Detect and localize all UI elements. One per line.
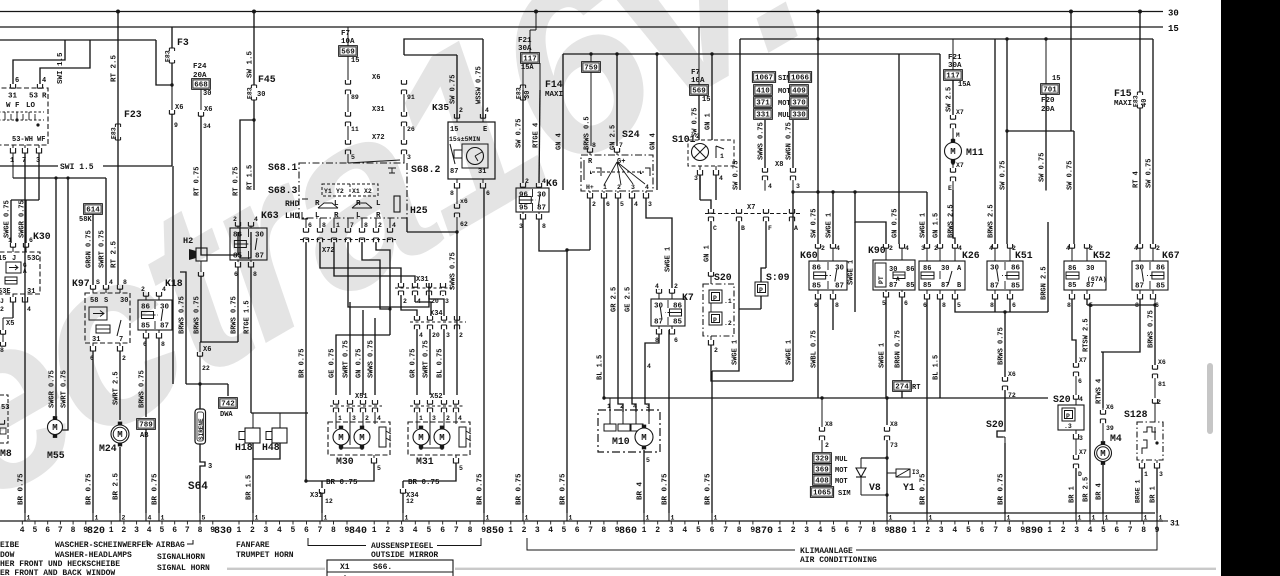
- svg-text:2: 2: [385, 526, 390, 535]
- svg-text:2: 2: [1156, 245, 1160, 252]
- wire X8-4 stub: [764, 189, 766, 192]
- svg-text:5: 5: [459, 465, 463, 472]
- svg-text:5: 5: [427, 526, 432, 535]
- svg-text:M: M: [359, 433, 364, 443]
- svg-text:4: 4: [413, 526, 418, 535]
- svg-text:P: P: [713, 295, 717, 302]
- svg-text:X1: X1: [340, 563, 350, 572]
- svg-text:5: 5: [562, 526, 567, 535]
- pins below S128: [1141, 460, 1143, 463]
- connector code 742 DWA: [227, 384, 229, 396]
- horn H48: [279, 413, 281, 428]
- svg-text:L: L: [356, 212, 361, 220]
- svg-text:6: 6: [29, 237, 33, 244]
- wire S9 pin7 down to ground rail: [24, 153, 26, 513]
- svg-text:87: 87: [990, 283, 999, 291]
- svg-text:SWGE 1: SWGE 1: [920, 213, 928, 238]
- pins below S24: [589, 191, 591, 193]
- svg-text:MOT: MOT: [778, 100, 791, 108]
- connector X6 pin x1005: [1002, 377, 1007, 381]
- svg-text:1: 1: [405, 515, 409, 522]
- svg-text:2: 2: [365, 415, 369, 422]
- svg-text:P: P: [713, 317, 717, 324]
- svg-text:D: D: [1078, 471, 1082, 478]
- svg-text:40: 40: [1141, 99, 1149, 107]
- svg-text:1: 1: [720, 153, 724, 160]
- svg-text:BRWS 0.75: BRWS 0.75: [1148, 310, 1156, 348]
- svg-text:BL 0.75: BL 0.75: [437, 349, 445, 378]
- svg-text:4: 4: [836, 245, 840, 252]
- svg-text:12: 12: [406, 498, 414, 505]
- wire K52-8 down to pressure switch: [1072, 299, 1076, 363]
- svg-text:MUL: MUL: [778, 112, 791, 120]
- svg-text:TRUMPET HORN: TRUMPET HORN: [236, 551, 294, 560]
- svg-text:WASHER-HEADLAMPS: WASHER-HEADLAMPS: [55, 551, 132, 560]
- wire SWGE 1 k90 loop tail: [854, 222, 856, 312]
- ECU connector codes 371 MOT 370: [754, 97, 773, 108]
- wire X7-B down: [712, 221, 739, 371]
- svg-text:OUTSIDE MIRROR: OUTSIDE MIRROR: [371, 551, 438, 560]
- wire GN 2.5 to S24: [616, 54, 618, 146]
- wire SWRT 0.75 to M55: [62, 178, 68, 430]
- svg-text:SWGR 0.75: SWGR 0.75: [49, 370, 57, 408]
- svg-text:E83: E83: [1133, 95, 1140, 107]
- svg-text:117: 117: [946, 73, 960, 81]
- connector X7 pin E below M11: [952, 163, 954, 168]
- svg-text:840: 840: [349, 526, 367, 537]
- svg-text:4: 4: [645, 184, 649, 191]
- svg-text:H2: H2: [183, 236, 193, 246]
- svg-text:6: 6: [1012, 302, 1016, 309]
- svg-text:SW 1.5: SW 1.5: [247, 50, 255, 78]
- svg-text:S20: S20: [986, 419, 1004, 430]
- svg-text:30: 30: [537, 192, 547, 200]
- svg-text:85: 85: [1068, 282, 1076, 290]
- svg-text:95: 95: [519, 205, 529, 213]
- svg-text:87: 87: [835, 283, 844, 291]
- wire SW 0.75 to S101 lamp: [698, 95, 700, 140]
- wire S24-2 down BR: [589, 198, 591, 250]
- svg-text:4: 4: [277, 526, 282, 535]
- svg-text:S128: S128: [1124, 409, 1148, 420]
- svg-text:6: 6: [844, 526, 849, 535]
- svg-text:BRGN 0.75: BRGN 0.75: [895, 330, 903, 368]
- svg-text:M: M: [1100, 449, 1105, 459]
- svg-text:K51: K51: [1015, 250, 1033, 261]
- svg-text:BR 0.75: BR 0.75: [516, 473, 524, 505]
- connector X7 pin M: [950, 115, 955, 119]
- svg-text:7: 7: [454, 526, 459, 535]
- connector code 274 RT: [893, 381, 912, 392]
- connector code 759: [582, 62, 601, 73]
- svg-text:H+: H+: [586, 184, 594, 191]
- svg-text:BRGE 1: BRGE 1: [1135, 479, 1142, 503]
- svg-text:890: 890: [1025, 526, 1043, 537]
- svg-text:F7: F7: [341, 30, 350, 38]
- mirror actuator M31: [408, 422, 470, 455]
- svg-text:9: 9: [345, 526, 350, 535]
- svg-text:3: 3: [1079, 435, 1083, 442]
- wire F7 to connector chain: [347, 56, 349, 80]
- svg-text:4: 4: [905, 245, 909, 252]
- svg-text:BRWS 0.75: BRWS 0.75: [231, 296, 239, 334]
- wire BR 0.75 S20 to ruler: [1004, 443, 1006, 513]
- svg-text:1: 1: [486, 515, 490, 522]
- wire SWRT 0.75 to K97 pin 4: [105, 178, 107, 285]
- wire GN 1.5 to K26 pin2: [939, 54, 941, 244]
- svg-text:F15: F15: [1114, 88, 1132, 99]
- svg-text:BR 2.5: BR 2.5: [113, 472, 121, 500]
- svg-text:96: 96: [519, 192, 529, 200]
- svg-text:BR 0.75: BR 0.75: [998, 473, 1006, 505]
- svg-text:X1: X1: [352, 188, 360, 195]
- svg-text:2: 2: [0, 306, 4, 313]
- svg-text:20A: 20A: [1041, 106, 1055, 114]
- svg-text:30A: 30A: [948, 62, 962, 70]
- svg-text:F: F: [768, 225, 772, 232]
- wire BR 1 S128 to ruler: [1156, 468, 1158, 513]
- svg-text:1: 1: [95, 515, 99, 522]
- svg-text:BR 4: BR 4: [1096, 483, 1104, 500]
- svg-text:6: 6: [1078, 378, 1082, 385]
- svg-text:S66.: S66.: [373, 563, 392, 572]
- svg-text:PT: PT: [878, 276, 885, 284]
- wire K60-8 tail: [832, 299, 834, 330]
- terminal 31 right end: [1156, 513, 1158, 521]
- svg-text:E83: E83: [247, 87, 254, 99]
- wire SWGR 0.75 to M55: [55, 178, 57, 416]
- svg-text:J: J: [0, 298, 4, 305]
- svg-text:F21: F21: [948, 54, 962, 62]
- svg-text:7: 7: [318, 526, 323, 535]
- svg-text:E: E: [948, 185, 952, 192]
- svg-text:X8: X8: [890, 421, 898, 428]
- wire BRGE 1 to klima bus: [1141, 468, 1143, 513]
- svg-text:569: 569: [692, 88, 706, 96]
- svg-text:S68.2: S68.2: [411, 164, 441, 175]
- wire x1103 RTWS to X6 39: [1100, 410, 1105, 414]
- svg-text:53-WH: 53-WH: [12, 136, 33, 144]
- wire bus54 down x899 segment: [898, 53, 900, 56]
- svg-text:6: 6: [45, 526, 50, 535]
- svg-text:BR 1: BR 1: [1150, 486, 1158, 503]
- svg-text:22: 22: [202, 365, 210, 372]
- resistor H25: [394, 196, 400, 212]
- svg-text:M4: M4: [1110, 433, 1122, 444]
- svg-text:5: 5: [291, 526, 296, 535]
- svg-text:87: 87: [255, 253, 264, 261]
- svg-text:3: 3: [446, 332, 450, 339]
- svg-text:RTGE 1.5: RTGE 1.5: [244, 300, 252, 334]
- svg-text:1: 1: [161, 515, 165, 522]
- svg-text:870: 870: [755, 526, 773, 537]
- svg-text:WSSW 0.75: WSSW 0.75: [476, 66, 484, 104]
- svg-text:MOT: MOT: [835, 467, 848, 475]
- wire BR 0.75 K35 pin6 to ground rail: [483, 188, 485, 513]
- svg-text:15: 15: [450, 126, 458, 134]
- wire BRWS 2.5 to K51 pin4: [994, 39, 996, 244]
- svg-text:850: 850: [486, 526, 504, 537]
- svg-text:4: 4: [633, 403, 637, 410]
- svg-text:R: R: [376, 212, 381, 220]
- svg-text:274: 274: [895, 384, 909, 392]
- svg-text:9: 9: [481, 526, 486, 535]
- svg-text:4: 4: [682, 526, 687, 535]
- svg-text:SW 0.75: SW 0.75: [450, 75, 458, 104]
- svg-text:K52: K52: [1093, 250, 1111, 261]
- svg-text:3: 3: [631, 184, 635, 191]
- svg-text:62: 62: [460, 221, 468, 228]
- svg-text:BR 0.75: BR 0.75: [326, 479, 358, 487]
- wire F24 to K63 pin 2: [201, 232, 238, 255]
- svg-text:85: 85: [906, 282, 914, 290]
- svg-text:85: 85: [923, 282, 931, 290]
- svg-text:RT 2.5: RT 2.5: [111, 240, 119, 268]
- svg-text:30: 30: [941, 265, 949, 273]
- svg-text:4: 4: [542, 178, 546, 185]
- svg-text:7: 7: [619, 142, 623, 149]
- svg-text:759: 759: [584, 65, 598, 73]
- ECU connector codes 331 MUL 330: [754, 109, 773, 120]
- svg-text:L: L: [315, 212, 320, 220]
- svg-text:1: 1: [237, 526, 242, 535]
- svg-text:86: 86: [141, 304, 151, 312]
- svg-text:7: 7: [185, 526, 190, 535]
- svg-text:BR 1: BR 1: [1069, 486, 1077, 503]
- wire BR 4 M10 to ground rail: [643, 450, 645, 513]
- svg-text:SWGE 1: SWGE 1: [665, 247, 673, 272]
- svg-text:A: A: [896, 276, 900, 283]
- svg-text:6: 6: [15, 77, 19, 85]
- wire SW 0.75 x1074 to K52: [1073, 131, 1075, 244]
- svg-text:4: 4: [27, 306, 31, 313]
- svg-text:830: 830: [214, 526, 232, 537]
- svg-text:M55: M55: [47, 450, 65, 461]
- svg-text:6: 6: [486, 190, 490, 197]
- svg-text:X6: X6: [204, 106, 212, 114]
- svg-text:6: 6: [440, 526, 445, 535]
- svg-text:W F: W F: [6, 102, 20, 110]
- svg-text:2: 2: [122, 355, 126, 362]
- svg-text:BR 0.75: BR 0.75: [705, 473, 713, 505]
- svg-text:9: 9: [83, 526, 88, 535]
- svg-text:15s±5MIN: 15s±5MIN: [449, 136, 480, 143]
- node junctions on bus 30: [116, 10, 120, 14]
- svg-text:S64: S64: [188, 481, 208, 493]
- svg-text:M: M: [117, 430, 122, 440]
- wire x6 62 junction from H25 to K35 pin8 wire: [406, 218, 408, 232]
- svg-text:RT 2.5: RT 2.5: [111, 54, 119, 82]
- svg-text:RTWS 4: RTWS 4: [1096, 379, 1104, 404]
- wire RTGE 1.5 K63 pin8 to horns: [250, 267, 252, 413]
- svg-text:4: 4: [254, 216, 258, 223]
- svg-text:BRWS 0.75: BRWS 0.75: [179, 296, 187, 334]
- svg-text:15: 15: [351, 57, 359, 65]
- svg-text:30: 30: [160, 304, 170, 312]
- svg-text:7: 7: [350, 222, 354, 229]
- svg-text:WF: WF: [37, 136, 45, 144]
- svg-text:4: 4: [42, 77, 46, 85]
- svg-text:X6: X6: [175, 104, 183, 112]
- wire relay feed bus y192: [793, 191, 927, 193]
- svg-text:4: 4: [989, 245, 993, 252]
- svg-text:RTSW 2.5: RTSW 2.5: [1083, 318, 1091, 352]
- svg-text:1: 1: [1092, 515, 1096, 522]
- svg-text:RHD: RHD: [285, 200, 300, 209]
- svg-text:SWGE 1: SWGE 1: [879, 343, 887, 368]
- svg-text:1: 1: [1144, 515, 1148, 522]
- svg-text:X2: X2: [364, 188, 372, 195]
- wire SW 0.75 from y39 to K67: [1152, 39, 1154, 244]
- wire to S9 pin 4: [40, 40, 90, 84]
- svg-text:SWRT 0.75: SWRT 0.75: [343, 340, 351, 378]
- wire RT 4 from F15 to K67: [1139, 108, 1141, 244]
- svg-text:EIBE: EIBE: [0, 541, 19, 550]
- wire K90-5 down SWGE: [885, 297, 887, 398]
- svg-text:2: 2: [122, 515, 126, 522]
- svg-text:1: 1: [372, 526, 377, 535]
- svg-text:5: 5: [377, 465, 381, 472]
- svg-text:1: 1: [10, 157, 14, 165]
- ruler tick marks: [22, 521, 1157, 525]
- svg-text:87: 87: [160, 323, 169, 331]
- svg-text:P: P: [759, 287, 763, 294]
- svg-text:S:09: S:09: [766, 272, 790, 283]
- svg-text:M: M: [338, 433, 343, 443]
- wire SW 0.75 from F21 to K6: [522, 90, 524, 183]
- svg-text:GE 2.5: GE 2.5: [625, 287, 633, 312]
- svg-text:1: 1: [714, 515, 718, 522]
- wire S24-4 GE 2.5: [632, 198, 636, 412]
- wire SWGR 0.75 to K30 pin6: [25, 200, 27, 243]
- svg-text:1: 1: [109, 526, 114, 535]
- wire bus y178 to M55/K97: [13, 177, 106, 179]
- svg-text:86: 86: [1156, 265, 1166, 273]
- svg-text:2: 2: [121, 526, 126, 535]
- wire SWGN 0.75 from ECU: [792, 120, 794, 168]
- svg-text:X52: X52: [430, 393, 443, 401]
- svg-text:BRWS 0.75: BRWS 0.75: [194, 296, 202, 334]
- svg-text:6: 6: [575, 526, 580, 535]
- caption airbag: [147, 540, 193, 544]
- svg-text:AIRBAG: AIRBAG: [156, 541, 185, 550]
- svg-text:72: 72: [1008, 392, 1016, 399]
- wire BR 0.75 K97 to ground rail: [92, 351, 94, 513]
- svg-text:F23: F23: [124, 109, 142, 120]
- wires X31 down to mirror M30: [335, 352, 337, 395]
- svg-text:RT 0.75: RT 0.75: [194, 167, 202, 196]
- svg-text:X34: X34: [430, 310, 443, 318]
- svg-text:1: 1: [1078, 515, 1082, 522]
- wire SW 2.5 to M11: [952, 80, 954, 115]
- wire K52 K67 ground bus y305: [1086, 299, 1088, 305]
- svg-text:4: 4: [148, 515, 152, 522]
- svg-text:E83: E83: [165, 50, 172, 62]
- wire ground rail x712: [711, 371, 713, 513]
- svg-text:M: M: [641, 433, 646, 443]
- wire SWGN 0.75 branch down to S20 bus: [792, 192, 794, 381]
- svg-text:8: 8: [592, 142, 596, 149]
- svg-text:1: 1: [1047, 526, 1052, 535]
- svg-text:569: 569: [341, 49, 355, 57]
- svg-text:K97: K97: [72, 278, 90, 289]
- wire bus y54: [563, 53, 940, 55]
- svg-text:30: 30: [990, 265, 1000, 273]
- wire BR 0.75 K6 pin3 to ground rail: [522, 219, 524, 513]
- wire RT 1.5 from F45 down: [253, 120, 255, 190]
- svg-text:87: 87: [941, 282, 949, 290]
- wire heater feed bus y398: [604, 397, 1048, 399]
- svg-text:91: 91: [407, 94, 415, 101]
- svg-text:1: 1: [27, 515, 31, 522]
- svg-text:1: 1: [338, 415, 342, 422]
- svg-text:4: 4: [1134, 245, 1138, 252]
- svg-text:H18: H18: [235, 442, 253, 453]
- svg-text:X7: X7: [956, 162, 964, 169]
- svg-text:3: 3: [1074, 526, 1079, 535]
- svg-text:BRWS 0.5: BRWS 0.5: [584, 116, 592, 150]
- svg-text:1: 1: [1144, 471, 1148, 478]
- wire mirror ground to X31 pin 12: [304, 479, 307, 482]
- svg-text:K6: K6: [546, 178, 558, 189]
- wire BRWS 0.75 to S20 switch: [1004, 312, 1006, 377]
- svg-text:4: 4: [548, 526, 553, 535]
- svg-text:GR 0.75: GR 0.75: [410, 349, 418, 378]
- svg-text:3: 3: [445, 298, 449, 305]
- svg-text:8: 8: [123, 279, 127, 286]
- svg-text:369: 369: [815, 467, 829, 475]
- wire BR 2.5 M24 to ground rail: [119, 447, 121, 513]
- svg-text:M: M: [950, 147, 955, 157]
- svg-text:MAXI: MAXI: [1114, 100, 1132, 108]
- svg-text:K60: K60: [800, 250, 818, 261]
- svg-text:K7: K7: [682, 292, 694, 303]
- svg-text:2: 2: [459, 332, 463, 339]
- svg-text:2: 2: [141, 286, 145, 293]
- svg-text:614: 614: [86, 207, 100, 215]
- svg-text:I3: I3: [912, 469, 920, 476]
- legend table X1 S66: [327, 560, 453, 576]
- svg-text:S: S: [104, 297, 108, 305]
- svg-text:4: 4: [958, 245, 962, 252]
- motor M24 wiper motor: [111, 425, 129, 443]
- svg-text:.3: .3: [1064, 423, 1072, 430]
- wire from bus30 x1071 down to y131: [1070, 12, 1072, 132]
- svg-text:S101: S101: [672, 134, 696, 145]
- svg-text:8: 8: [1141, 526, 1146, 535]
- svg-text:K67: K67: [1162, 250, 1180, 261]
- svg-text:x6: x6: [460, 198, 468, 205]
- svg-text:SW 0.75: SW 0.75: [811, 209, 819, 238]
- svg-text:1: 1: [603, 184, 607, 191]
- svg-text:30: 30: [1168, 9, 1179, 19]
- svg-text:3: 3: [694, 175, 698, 182]
- svg-text:2: 2: [522, 526, 527, 535]
- svg-text:2: 2: [934, 245, 938, 252]
- svg-text:AUSSENSPIEGEL: AUSSENSPIEGEL: [371, 542, 434, 551]
- svg-text:1: 1: [646, 515, 650, 522]
- svg-text:3: 3: [648, 201, 652, 208]
- svg-text:5: 5: [160, 526, 165, 535]
- svg-text:A: A: [23, 268, 27, 275]
- svg-text:8: 8: [468, 526, 473, 535]
- svg-text:4: 4: [392, 222, 396, 229]
- pins below K35: [456, 179, 458, 183]
- rear wiper connector fragment M8: [0, 395, 8, 443]
- pins below K30: [10, 297, 15, 302]
- wire SWGE 0.75 to K30 pin1: [10, 200, 12, 243]
- svg-text:15: 15: [1168, 24, 1179, 34]
